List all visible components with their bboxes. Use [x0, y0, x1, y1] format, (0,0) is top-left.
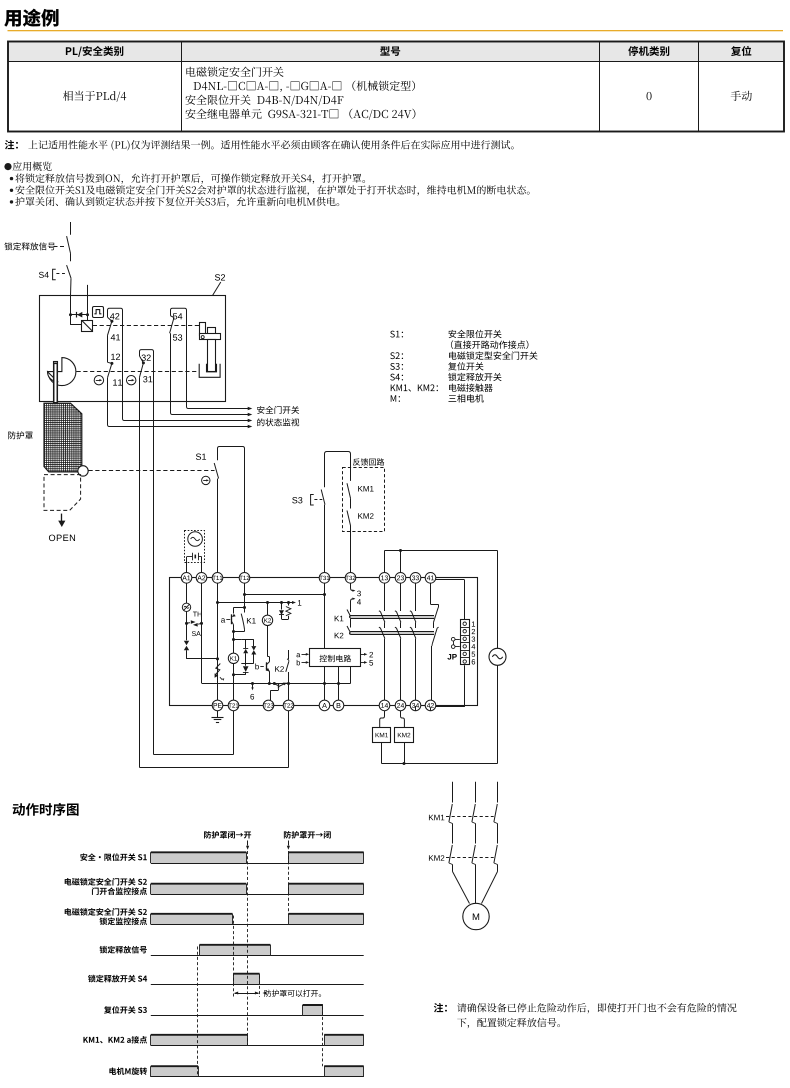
table body col4 复位 manual: [731, 91, 752, 101]
table column borders: [181, 42, 183, 132]
contact K1-a blade: [241, 614, 244, 630]
wire 42 to JP loop: [430, 707, 432, 711]
wire T22 loop to S2-31: [288, 711, 290, 768]
table header background: [8, 42, 784, 62]
power source battery symbol: [187, 556, 192, 558]
timing row KM1、KM2 a接点: [151, 1035, 248, 1046]
KM1 coil box: [373, 728, 391, 743]
table body col3 stop category 0: [647, 92, 652, 100]
K1 bar blade left: [347, 610, 350, 617]
terminal T32: [345, 573, 356, 584]
wire A2 internal down to hline683: [201, 583, 203, 683]
three phase lines top: [452, 782, 454, 803]
contact blade 32-31: [142, 361, 145, 364]
label K2 bar: [335, 633, 344, 639]
label KM1 motor: [429, 815, 444, 821]
label KM2 motor: [429, 855, 444, 861]
K2 mechanical bar: [351, 632, 435, 634]
contact K2-a blade: [288, 650, 290, 659]
terminal T12: [239, 573, 250, 584]
wire between contacts 41-12: [107, 335, 109, 362]
legend S2: [390, 352, 403, 359]
top bus 13 23 to right supply: [385, 550, 498, 552]
wire T21 loop to S2-32: [233, 711, 235, 755]
S4 actuator bracket: [53, 269, 56, 280]
page title 用途例: [4, 9, 58, 27]
wire S1 loop top: [218, 447, 245, 573]
stub 6 with arrow: [252, 684, 254, 688]
timing row 安全·限位开关 S1: [151, 852, 247, 863]
table body col2 model lines: [186, 67, 283, 77]
contact b / transistor 1: [260, 666, 264, 668]
bottom note 注: [434, 1003, 447, 1012]
timing title 动作时序图: [13, 803, 79, 816]
control circuit box 控制电路: [310, 649, 361, 667]
KM2 coil box: [395, 728, 414, 743]
terminal 14: [379, 700, 390, 711]
terminal A1: [181, 573, 192, 584]
bullet 2: [10, 189, 13, 192]
timing dashed guides: [197, 947, 199, 1077]
label KM1 feedback: [358, 486, 373, 492]
JP connector block: [461, 620, 470, 665]
timing row 复位开关 S3: [151, 1015, 303, 1017]
status monitor line from 53-left: [171, 402, 250, 415]
LED pair on hlineB: [280, 601, 283, 604]
contact KM2 NC in feedback: [347, 511, 351, 526]
table header separator: [8, 61, 784, 63]
terminal 34: [410, 700, 421, 711]
direct opening symbol 1: [94, 376, 103, 385]
diode on A1 chain: [186, 623, 188, 640]
switch S4 contact: [67, 265, 71, 278]
phase segments mid: [452, 824, 454, 844]
terminal T21: [228, 700, 239, 711]
label S1: [196, 454, 206, 460]
terminal 42 bottom: [425, 700, 436, 711]
label 的状态监视: [257, 418, 299, 426]
table header cells text: [66, 46, 123, 57]
feedback circuit dashed box 反馈回路: [343, 468, 385, 532]
power source AC sine circle: [188, 532, 203, 547]
wire KM2 to bottom bus: [404, 743, 406, 764]
label K1 bar: [335, 616, 344, 622]
timing top annotation guard open-close: [284, 831, 331, 839]
timing row 锁定释放开关 S4: [151, 984, 234, 986]
JP jumper: [451, 637, 455, 641]
terminal B: [333, 700, 344, 711]
wire 41 to JP top: [436, 579, 465, 581]
wire between bars: [350, 618, 352, 627]
aux NC contact 41-42 blade: [430, 583, 432, 604]
terminal 33: [410, 573, 421, 584]
wire T11 internal down to PE: [217, 583, 219, 700]
terminal number labels 32 31: [142, 355, 151, 361]
wire K1 coil to T21: [233, 664, 235, 701]
legend S3: [390, 363, 403, 370]
lock mechanism bolt: [208, 340, 216, 372]
contact KM1 NC in feedback: [347, 483, 351, 498]
label 锁定释放信号: [4, 242, 55, 250]
wire internal hline A T12-T31: [245, 594, 325, 596]
S1 direct opening symbol: [202, 476, 210, 484]
bullet 1: [10, 177, 13, 180]
label 防护罩可以打开: [264, 990, 321, 997]
wire A2 to source: [201, 557, 203, 573]
lock mechanism cup: [199, 364, 220, 378]
wire S3 loop top: [325, 452, 351, 488]
wire T12 chain to a-contact: [244, 583, 246, 612]
legend S4: [390, 374, 403, 381]
contact blade 54-53: [170, 318, 174, 334]
wire 54 chain right conductor: [186, 310, 188, 402]
note line 注: [5, 140, 18, 149]
wire into box from S4: [70, 296, 72, 315]
OPEN arrow: [61, 514, 63, 521]
JP pin numbers: [472, 621, 475, 626]
terminal 41: [425, 573, 436, 584]
relay coil K2: [262, 615, 272, 625]
timing top annotation guard close-open: [204, 831, 251, 839]
legend S1 sub: [451, 340, 528, 349]
mechanical dashed link roller to S1: [89, 470, 215, 472]
contact 54-53 top bridge: [171, 308, 187, 316]
wire 53 down: [170, 333, 172, 401]
guard 防护罩 hatched panel: [44, 403, 82, 472]
safety contact blades 13-14 23-24 33-34: [384, 583, 386, 611]
wire a-contact to K1 coil: [233, 632, 235, 654]
label S3: [292, 497, 302, 503]
wire 31 down long to T21 loop: [139, 377, 141, 767]
label 反馈回路: [353, 458, 384, 465]
wire KM1 to bottom bus: [381, 743, 383, 764]
timing row 电磁锁定安全门开关 S2: [151, 884, 247, 895]
mechanical dashed link lower (cam to lock): [77, 371, 199, 373]
S3 actuator bracket: [311, 495, 314, 506]
wire K2 coil down to b-contact: [267, 626, 269, 657]
guard roller circle: [78, 466, 88, 476]
wire A1 chain to T11 line: [186, 650, 188, 659]
lock mechanism latch arm: [200, 334, 221, 340]
label 安全门开关: [257, 406, 299, 414]
contact blade 12-11: [110, 362, 113, 365]
wire 11 down: [107, 378, 109, 402]
status monitor line from 54-right: [187, 402, 250, 409]
wire lock-release feed top: [70, 222, 72, 235]
diode release (points left): [71, 314, 88, 316]
switch S1 blade: [214, 463, 218, 479]
phase segments to motor: [452, 865, 454, 872]
control box input arrows a b: [297, 653, 301, 657]
label S2 with leader: [215, 274, 225, 280]
table outer border: [8, 42, 784, 132]
table body col1 相当于PLd/4: [63, 91, 126, 102]
mechanical dashed link upper (solenoid to lock): [93, 325, 200, 327]
node junction release diode left: [69, 313, 72, 316]
label K2 contact: [275, 666, 284, 672]
timing row 锁定释放信号: [151, 955, 200, 957]
wire 2 into box: [87, 285, 89, 321]
wire K2 coil to hlineB: [267, 603, 269, 616]
wire S1 to T11: [217, 479, 219, 573]
ground symbol under PE: [217, 711, 219, 717]
cam disc with notch: [48, 358, 76, 386]
terminal T22: [283, 700, 294, 711]
direct opening symbol 2: [127, 376, 136, 385]
node junction release diode right: [86, 313, 89, 316]
wire A1 to source: [186, 557, 188, 573]
timing S4 open-range arrows: [235, 993, 259, 995]
contact blade 42-41: [110, 320, 113, 323]
lock mechanism knob: [208, 328, 216, 335]
wire A1 chain TH: [186, 583, 188, 603]
contact 32-31 top bridge: [140, 350, 154, 356]
power source dotted box: [185, 531, 205, 563]
legend KM1 KM2: [391, 384, 438, 391]
wire 14 to KM1 coil: [384, 711, 386, 716]
timing row 电磁锁定安全门开关 S2: [151, 914, 233, 925]
terminal A2: [196, 573, 207, 584]
guard open ghost outline dashed: [44, 475, 81, 511]
control box output arrows 2 5: [361, 654, 365, 656]
legend M: [391, 395, 400, 402]
hline 683 internal bus: [202, 683, 351, 685]
wire S3 to T31: [324, 505, 326, 573]
pulse unlock symbol box: [93, 307, 104, 318]
relay coil K1: [228, 653, 238, 663]
wire 42 chain right conductor: [122, 310, 124, 402]
wire 34 down: [415, 706, 417, 711]
motor circle M: [463, 903, 489, 929]
label 防护罩: [8, 431, 33, 439]
status monitor line from 42-right: [123, 402, 250, 421]
terminal T11: [212, 573, 223, 584]
relay unit box: [170, 578, 478, 706]
cam follower bump: [48, 372, 58, 382]
diode branch beside K1: [241, 639, 254, 641]
K2 bar blade left: [347, 626, 350, 633]
wire internal hline B from T11 with arrow 1: [218, 602, 294, 604]
wire 24 to KM2 coil: [400, 711, 402, 716]
wire solenoid feed: [70, 315, 72, 325]
label KM2 feedback: [358, 513, 373, 519]
surge arrester zigzag on T11 line: [215, 664, 220, 675]
dashed link release signal: [54, 246, 66, 248]
solenoid (box with diagonal): [82, 321, 93, 332]
enclosure S2 door switch box: [40, 296, 226, 402]
AC supply source circle: [489, 648, 506, 665]
switch S3 blade: [321, 490, 325, 505]
terminal T23: [263, 700, 274, 711]
terminal PE: [212, 700, 223, 711]
wire right supply down to AC source: [497, 551, 499, 649]
wire T31 internal to control box: [324, 583, 326, 649]
wire T22 internal: [288, 684, 290, 701]
operation key bar: [54, 362, 58, 403]
wire 32 chain right conductor: [153, 351, 155, 755]
bottom bus KM coils: [382, 763, 498, 765]
switch lock-release-signal contact: [67, 236, 71, 253]
contact 42-41/12-11 top bridge: [108, 308, 123, 317]
wire A B to control box: [324, 667, 326, 700]
bullet 3: [10, 200, 13, 203]
status monitor line from 11-left: [108, 402, 250, 427]
terminal T31: [319, 573, 330, 584]
terminal 24: [395, 700, 406, 711]
K1 mechanical bar: [351, 616, 435, 618]
application overview heading: [4, 163, 11, 170]
wire T32 hooks 3 4: [350, 583, 352, 588]
label S4: [39, 272, 49, 278]
terminal 13: [379, 573, 390, 584]
phototransistor a: [231, 614, 233, 624]
wire A1 chain SA switch: [186, 612, 188, 624]
lock mechanism flag plate: [200, 323, 206, 336]
timing row 电机M旋转: [151, 1066, 198, 1077]
label OPEN: [49, 535, 75, 542]
wire AC source to bottom bus: [497, 665, 499, 763]
KM2 main contacts: [449, 845, 452, 863]
label JP: [447, 654, 456, 660]
wire feedback to T32: [350, 526, 352, 573]
transistor 2: [278, 684, 280, 689]
KM1 main contacts: [449, 804, 452, 822]
wire T32 to K1 K2 bars: [350, 605, 352, 613]
terminal number labels 42 41 12 11: [110, 313, 119, 319]
terminal number labels 54 53: [173, 313, 182, 319]
title underline rule: [8, 30, 784, 31]
terminal A: [319, 700, 330, 711]
legend S1: [390, 331, 403, 338]
terminal 23: [395, 573, 406, 584]
